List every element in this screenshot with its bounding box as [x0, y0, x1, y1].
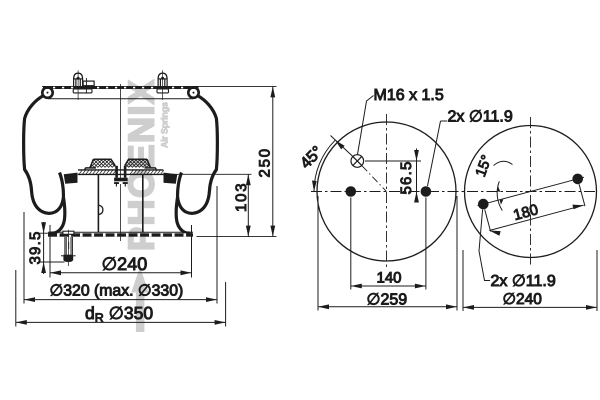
- bellows lower lobe right: [176, 198, 190, 234]
- bellows clamp wedge left: [64, 173, 78, 184]
- bead plate top line + extension to 250 dim: [42, 85, 277, 87]
- bottom plate: [48, 232, 193, 236]
- extension line bottom plate: [197, 236, 277, 238]
- dimension 180: [485, 184, 585, 235]
- 56.5 dimension: [365, 149, 421, 203]
- svg-text:∅259: ∅259: [367, 292, 408, 309]
- circle 1 centerlines: [311, 191, 598, 193]
- svg-text:140: 140: [377, 270, 402, 287]
- hole left circle1: [346, 186, 357, 197]
- bottom stud: [61, 230, 76, 266]
- piston top plate: [78, 170, 164, 175]
- rolled edge left: [42, 87, 52, 97]
- dimension dR Ø350: [16, 270, 226, 327]
- dimension Ø320 (max. Ø330): [24, 186, 217, 304]
- bellows clamp wedge right: [164, 173, 178, 184]
- 2x Ø11.9 top label: [441, 120, 448, 122]
- hole right circle2: [572, 174, 583, 185]
- 15 degree arc: [497, 181, 502, 210]
- dimension 140: [351, 198, 426, 290]
- dimension 103: [246, 174, 251, 236]
- bellows lower lobe left: [51, 198, 65, 234]
- circle 2 vertical centerline: [530, 117, 532, 266]
- svg-text:56.5: 56.5: [398, 161, 415, 195]
- hole axis line circle2: [478, 177, 585, 206]
- M16 x 1.5 label: [358, 96, 374, 155]
- plate underside line: [48, 98, 193, 100]
- svg-text:103: 103: [233, 182, 250, 212]
- dimension Ø240 left: [50, 225, 192, 278]
- svg-text:2x ∅11.9: 2x ∅11.9: [491, 273, 556, 290]
- dimension 250: [270, 86, 275, 236]
- svg-text:Air Springs: Air Springs: [160, 102, 170, 148]
- stud right: [157, 70, 169, 100]
- svg-text:250: 250: [257, 147, 274, 177]
- 45 degree arc: [314, 140, 335, 191]
- dimension 39.5: [40, 222, 65, 274]
- svg-text:∅240: ∅240: [102, 254, 148, 274]
- svg-text:M16 x 1.5: M16 x 1.5: [374, 87, 444, 104]
- svg-text:39.5: 39.5: [27, 231, 44, 265]
- hole right circle1: [421, 186, 432, 197]
- piston wall left: [97, 175, 99, 233]
- watermark PHOENIX logo: [121, 78, 170, 332]
- hole left circle2: [478, 199, 489, 210]
- bellows outer wall right: [178, 96, 218, 214]
- center line of side view: [120, 84, 122, 241]
- M16 fitting symbol: [351, 155, 364, 168]
- piston cap outline: [85, 159, 156, 170]
- dimension Ø240 right: [463, 250, 597, 311]
- svg-text:∅320 (max. ∅330): ∅320 (max. ∅330): [50, 283, 184, 300]
- circle 2 outline: [465, 126, 597, 258]
- rolled edge right: [188, 87, 198, 97]
- bead plate band: [43, 86, 199, 89]
- bellows outer wall left: [24, 96, 64, 214]
- svg-text:2x ∅11.9: 2x ∅11.9: [448, 109, 513, 126]
- dimension Ø259: [318, 196, 457, 311]
- piston plate hatch: [79, 170, 164, 174]
- 2x Ø11.9 bottom label: [479, 210, 490, 281]
- circle 1 outline: [317, 122, 456, 261]
- extension line piston top: [164, 173, 252, 175]
- piston center bolt: [114, 166, 128, 187]
- 45 degree diagonal: [331, 136, 353, 157]
- piston wall hole detent: [99, 205, 103, 214]
- piston cap crosshatch: [83, 160, 127, 168]
- air fitting: [83, 78, 94, 94]
- piston wall right: [142, 175, 144, 233]
- svg-text:∅240: ∅240: [503, 291, 543, 308]
- stud left: [73, 70, 92, 100]
